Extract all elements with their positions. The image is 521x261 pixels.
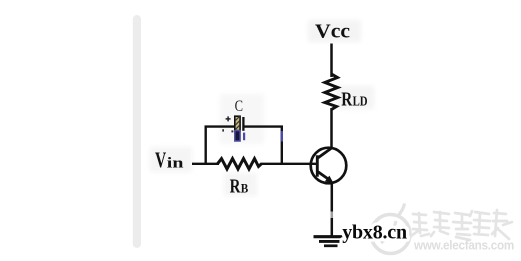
wire RLD to collector — [330, 108, 333, 149]
resistor RB — [218, 159, 262, 169]
resistor RLD — [325, 74, 338, 110]
left gray brush stroke — [133, 15, 141, 248]
svg-text:Vcc: Vcc — [315, 21, 350, 43]
ground — [314, 237, 347, 246]
svg-text:B: B — [241, 181, 249, 196]
svg-text:www.elecfans.com: www.elecfans.com — [413, 238, 514, 253]
wire cap branch left — [205, 125, 236, 127]
wire RB to base — [261, 163, 318, 165]
transistor Q1 — [311, 147, 347, 183]
svg-text:ybx8.cn: ybx8.cn — [342, 221, 407, 243]
wire cap branch right — [244, 125, 283, 127]
jpeg tint boxes — [150, 20, 374, 196]
wire Vcc to RLD — [330, 44, 333, 78]
wire right riser — [281, 127, 283, 165]
watermark emblem — [371, 204, 410, 254]
wire left riser — [204, 127, 206, 165]
svg-text:C: C — [235, 98, 243, 115]
svg-text:R: R — [230, 176, 241, 198]
stray dots near capacitor — [231, 130, 233, 132]
wire Vin to RB — [192, 163, 219, 165]
svg-text:R: R — [341, 89, 352, 111]
svg-text:V: V — [155, 147, 166, 172]
capacitor C — [226, 116, 245, 141]
wire emitter to ground — [331, 183, 334, 237]
svg-text:in: in — [167, 156, 184, 172]
watermark calligraphy dianzifashaoyou — [411, 210, 512, 240]
svg-text:LD: LD — [353, 95, 368, 110]
